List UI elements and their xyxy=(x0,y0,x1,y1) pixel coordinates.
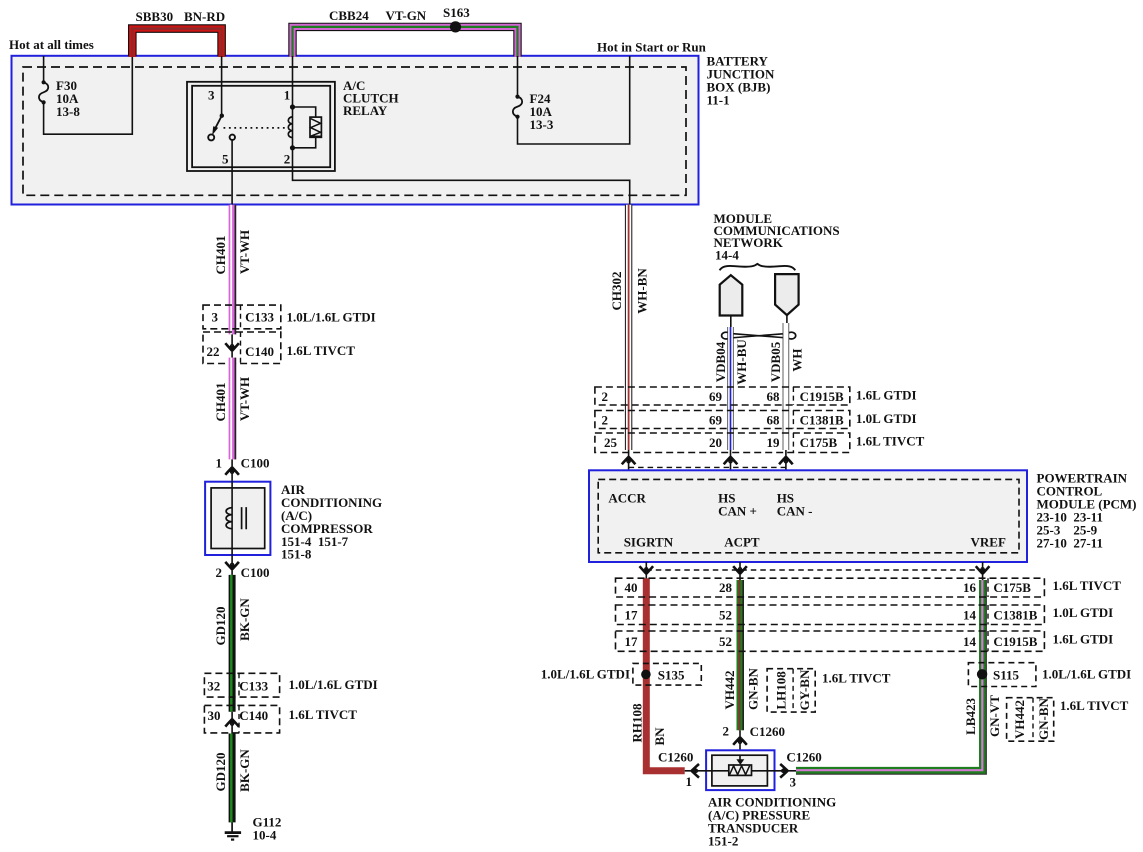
svg-text:CBB24: CBB24 xyxy=(329,8,369,23)
svg-text:S115: S115 xyxy=(993,667,1020,682)
svg-text:1.6L TIVCT: 1.6L TIVCT xyxy=(1060,698,1129,713)
svg-text:52: 52 xyxy=(719,634,732,649)
svg-text:C1381B: C1381B xyxy=(800,412,844,427)
wire GD120 BK-GN upper segment xyxy=(213,575,252,712)
connector C100 pin 2 arrow xyxy=(216,555,270,580)
svg-text:GD120: GD120 xyxy=(213,753,228,792)
svg-text:1.0L/1.6L GTDI: 1.0L/1.6L GTDI xyxy=(1042,667,1131,682)
svg-text:25: 25 xyxy=(604,435,618,450)
wire CH401 VT-WH upper segment xyxy=(213,205,252,335)
relay pin 5 contact xyxy=(230,135,235,140)
svg-text:C175B: C175B xyxy=(993,580,1031,595)
wire: F24 to Hot in Start or Run entry xyxy=(518,56,630,144)
wire: CBB24 right leg down to F24 xyxy=(517,56,519,97)
svg-text:VDB04: VDB04 xyxy=(713,341,728,382)
svg-text:5: 5 xyxy=(222,152,229,167)
svg-text:1.6L TIVCT: 1.6L TIVCT xyxy=(822,671,891,686)
wire: Hot at all times feed into F30 xyxy=(43,56,45,82)
wire CH401 VT-WH lower segment xyxy=(213,358,252,460)
svg-text:28: 28 xyxy=(719,580,733,595)
inline connector arrow into C140 xyxy=(225,334,239,357)
label: A/C CLUTCH RELAY xyxy=(343,78,399,118)
svg-text:C100: C100 xyxy=(241,456,270,471)
svg-text:C100: C100 xyxy=(241,565,270,580)
svg-text:1.6L GTDI: 1.6L GTDI xyxy=(856,388,917,403)
svg-text:17: 17 xyxy=(625,608,639,623)
svg-text:GN-BN: GN-BN xyxy=(1036,697,1051,740)
splice S115 xyxy=(968,663,1131,687)
svg-text:2: 2 xyxy=(723,724,730,739)
svg-text:1.0L/1.6L GTDI: 1.0L/1.6L GTDI xyxy=(541,667,630,682)
svg-text:3: 3 xyxy=(208,88,215,103)
svg-text:GY-BN: GY-BN xyxy=(797,669,812,710)
transducer sense arrow xyxy=(736,755,744,765)
svg-text:SBB30: SBB30 xyxy=(136,9,174,24)
connector C133 (pin 3) dashed box xyxy=(203,305,376,329)
inline connector arrow into C140 pin 30 xyxy=(225,712,239,734)
svg-text:1.6L GTDI: 1.6L GTDI xyxy=(1053,632,1114,647)
svg-text:C133: C133 xyxy=(239,678,268,693)
lower grid row C175B xyxy=(616,578,1122,597)
lower grid row C1381B xyxy=(616,605,1114,625)
PCM pin names xyxy=(608,491,1006,550)
wire VDB05 WH xyxy=(768,323,805,450)
svg-text:1.6L TIVCT: 1.6L TIVCT xyxy=(856,434,925,449)
svg-text:C1915B: C1915B xyxy=(993,634,1037,649)
svg-text:1.6L TIVCT: 1.6L TIVCT xyxy=(287,343,356,358)
svg-text:C1915B: C1915B xyxy=(800,389,844,404)
svg-text:20: 20 xyxy=(709,435,722,450)
label: POWERTRAIN CONTROL MODULE (PCM) xyxy=(1037,471,1137,551)
wire: CBB24 left leg to relay pin 1 xyxy=(292,56,294,107)
alternate wire box VH442 GN-BN xyxy=(1007,697,1129,741)
svg-text:GD120: GD120 xyxy=(213,607,228,646)
svg-text:C175B: C175B xyxy=(800,435,838,450)
svg-text:CAN +: CAN + xyxy=(718,504,757,519)
wire: relay pin 2 bus to right exit xyxy=(293,147,630,205)
svg-text:VT-WH: VT-WH xyxy=(237,230,252,274)
svg-text:ACPT: ACPT xyxy=(724,535,760,550)
A/C pressure transducer box xyxy=(706,750,774,790)
wire VDB04 WH-BU xyxy=(713,327,749,450)
fuse F24 xyxy=(513,91,554,132)
relay inner box xyxy=(192,86,330,167)
svg-text:LH108: LH108 xyxy=(774,671,789,710)
svg-text:19: 19 xyxy=(767,435,781,450)
twisted pair symbol xyxy=(722,332,796,339)
lower grid row C1915B xyxy=(616,631,1114,651)
svg-text:Hot in Start or Run: Hot in Start or Run xyxy=(597,40,707,55)
svg-text:RELAY: RELAY xyxy=(343,103,388,118)
connector row C1915B xyxy=(595,387,917,405)
wire RH108 BN (SIGRTN) xyxy=(630,578,685,771)
A/C compressor box xyxy=(205,482,270,555)
svg-text:CH302: CH302 xyxy=(609,272,624,311)
ground G112 xyxy=(225,815,282,843)
PCM top pin arrows xyxy=(622,450,793,471)
svg-text:1.0L GTDI: 1.0L GTDI xyxy=(1053,605,1114,620)
svg-text:3: 3 xyxy=(790,775,797,790)
wire: F30 to SBB30 left leg xyxy=(44,56,133,134)
svg-text:22: 22 xyxy=(207,344,220,359)
svg-text:C140: C140 xyxy=(239,708,268,723)
svg-text:17: 17 xyxy=(625,634,639,649)
svg-text:151-2: 151-2 xyxy=(708,833,738,848)
svg-text:S163: S163 xyxy=(443,5,470,20)
svg-text:BK-GN: BK-GN xyxy=(237,598,252,641)
wire VH442 GN-BN (ACPT) xyxy=(722,580,761,730)
splice S135 xyxy=(541,663,702,685)
svg-text:VREF: VREF xyxy=(971,535,1006,550)
connector C133 (pin 32) dashed box xyxy=(204,673,377,697)
svg-text:GN-BN: GN-BN xyxy=(746,667,761,710)
wire CBB24 VT-GN (violet with green stripe) xyxy=(293,8,518,57)
relay switch arm xyxy=(208,114,224,141)
svg-text:WH-BN: WH-BN xyxy=(635,268,650,314)
svg-text:11-1: 11-1 xyxy=(707,93,730,108)
svg-text:2: 2 xyxy=(284,152,291,167)
svg-text:1.0L GTDI: 1.0L GTDI xyxy=(856,411,917,426)
svg-text:C1381B: C1381B xyxy=(993,608,1037,623)
network connector symbol (VDB05) xyxy=(775,274,799,323)
svg-text:Hot at all times: Hot at all times xyxy=(9,37,94,52)
svg-text:3: 3 xyxy=(212,310,219,325)
svg-text:40: 40 xyxy=(625,580,638,595)
fuse F30 xyxy=(39,78,80,119)
svg-text:1.0L/1.6L GTDI: 1.0L/1.6L GTDI xyxy=(289,677,378,692)
wire GD120 BK-GN lower segment xyxy=(213,734,252,823)
svg-text:13-8: 13-8 xyxy=(56,104,80,119)
svg-text:C1260: C1260 xyxy=(786,750,821,765)
wire SBB30 BN-RD (red with brown stripe) xyxy=(132,9,225,57)
label: AIR CONDITIONING (A/C) COMPRESSOR xyxy=(281,482,382,562)
svg-text:14-4: 14-4 xyxy=(715,248,739,263)
svg-text:1: 1 xyxy=(284,88,291,103)
svg-text:68: 68 xyxy=(767,389,781,404)
battery junction box BJB outline xyxy=(12,56,699,205)
svg-text:ACCR: ACCR xyxy=(608,491,646,506)
transducer through wire xyxy=(685,770,796,772)
svg-text:13-3: 13-3 xyxy=(530,117,554,132)
svg-text:WH: WH xyxy=(790,348,805,371)
svg-text:VT-GN: VT-GN xyxy=(386,8,427,23)
PCM bottom pin arrows xyxy=(640,562,990,580)
svg-text:C1260: C1260 xyxy=(750,724,785,739)
svg-text:1: 1 xyxy=(686,774,693,789)
label: AIR CONDITIONING (A/C) PRESSURE TRANSDUCER 151-2 xyxy=(708,794,836,848)
svg-text:C1260: C1260 xyxy=(658,750,693,765)
svg-text:C140: C140 xyxy=(245,344,274,359)
label: BATTERY JUNCTION BOX (BJB) 11-1 xyxy=(707,54,776,108)
svg-text:CH401: CH401 xyxy=(213,383,228,422)
connector C1260 pin 3 arrow xyxy=(780,750,822,790)
splice S163 xyxy=(443,5,470,33)
connector C1260 pin 2 arrow xyxy=(723,724,785,756)
relay pin labels xyxy=(208,88,290,167)
svg-text:C133: C133 xyxy=(245,310,274,325)
alternate wire box LH108 GY-BN xyxy=(767,669,891,712)
svg-text:VH442: VH442 xyxy=(722,671,737,710)
brace over network connectors xyxy=(720,264,796,270)
connector C140 (pin 22) dashed box xyxy=(203,332,355,364)
svg-text:RH108: RH108 xyxy=(630,703,645,743)
connector C100 pin 1 arrow xyxy=(216,456,270,482)
svg-text:CAN -: CAN - xyxy=(777,504,813,519)
svg-text:SIGRTN: SIGRTN xyxy=(624,535,674,550)
svg-text:WH-BU: WH-BU xyxy=(734,339,749,385)
relay coil resistor branch xyxy=(293,107,322,148)
svg-text:30: 30 xyxy=(208,708,221,723)
compressor clutch coil xyxy=(226,481,246,555)
svg-text:14: 14 xyxy=(963,634,977,649)
svg-text:2: 2 xyxy=(216,565,223,580)
wire LB423 GN-VT (VREF) xyxy=(796,580,1002,774)
svg-text:27-10 27-11: 27-10 27-11 xyxy=(1037,536,1103,551)
svg-text:CH401: CH401 xyxy=(213,236,228,275)
svg-text:BK-GN: BK-GN xyxy=(237,749,252,792)
svg-text:151-8: 151-8 xyxy=(281,547,312,562)
svg-text:GN-VT: GN-VT xyxy=(987,695,1002,737)
svg-text:LB423: LB423 xyxy=(963,697,978,734)
svg-text:BN-RD: BN-RD xyxy=(184,9,225,24)
svg-text:14: 14 xyxy=(963,608,977,623)
svg-text:32: 32 xyxy=(207,678,220,693)
svg-text:2: 2 xyxy=(602,412,609,427)
connector row C1381B xyxy=(595,411,917,429)
relay coil xyxy=(288,104,295,150)
svg-text:1: 1 xyxy=(216,456,223,471)
svg-text:VT-WH: VT-WH xyxy=(237,377,252,421)
label: MODULE COMMUNICATIONS NETWORK 14-4 xyxy=(714,211,840,263)
svg-text:69: 69 xyxy=(709,412,723,427)
relay contact dotted line xyxy=(224,127,286,129)
transducer resistor element xyxy=(729,765,752,775)
connector C140 (pin 30) dashed box xyxy=(204,705,357,733)
wire: relay pin 5 down through BJB bottom xyxy=(231,140,233,205)
svg-text:69: 69 xyxy=(709,389,723,404)
svg-text:VDB05: VDB05 xyxy=(768,341,783,382)
relay outer box xyxy=(187,82,335,171)
connector C1260 pin 1 arrow xyxy=(658,750,699,790)
PCM inner dashed border xyxy=(598,479,1019,552)
svg-text:68: 68 xyxy=(767,412,781,427)
svg-text:1.6L TIVCT: 1.6L TIVCT xyxy=(1053,578,1122,593)
svg-text:BN: BN xyxy=(652,727,667,746)
connector row C175B xyxy=(595,433,925,453)
BJB inner dashed border xyxy=(23,67,686,195)
svg-text:1.6L TIVCT: 1.6L TIVCT xyxy=(289,707,358,722)
svg-text:52: 52 xyxy=(719,608,732,623)
svg-text:2: 2 xyxy=(602,389,609,404)
network connector symbol (VDB04) xyxy=(720,275,743,327)
svg-text:VH442: VH442 xyxy=(1012,700,1027,739)
wire: SBB30 right leg to relay pin 3 xyxy=(221,56,223,116)
svg-text:S135: S135 xyxy=(658,667,685,682)
svg-text:10-4: 10-4 xyxy=(253,827,277,842)
wire CH302 WH-BN xyxy=(609,205,650,450)
svg-text:16: 16 xyxy=(963,580,977,595)
svg-text:1.0L/1.6L GTDI: 1.0L/1.6L GTDI xyxy=(287,309,376,324)
PCM box xyxy=(589,470,1027,562)
